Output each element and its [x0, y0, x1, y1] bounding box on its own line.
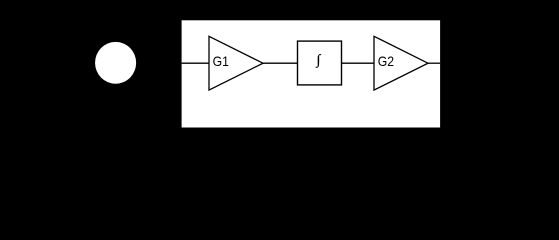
svg-text:G2: G2	[378, 53, 394, 69]
svg-text:G1: G1	[213, 53, 229, 69]
